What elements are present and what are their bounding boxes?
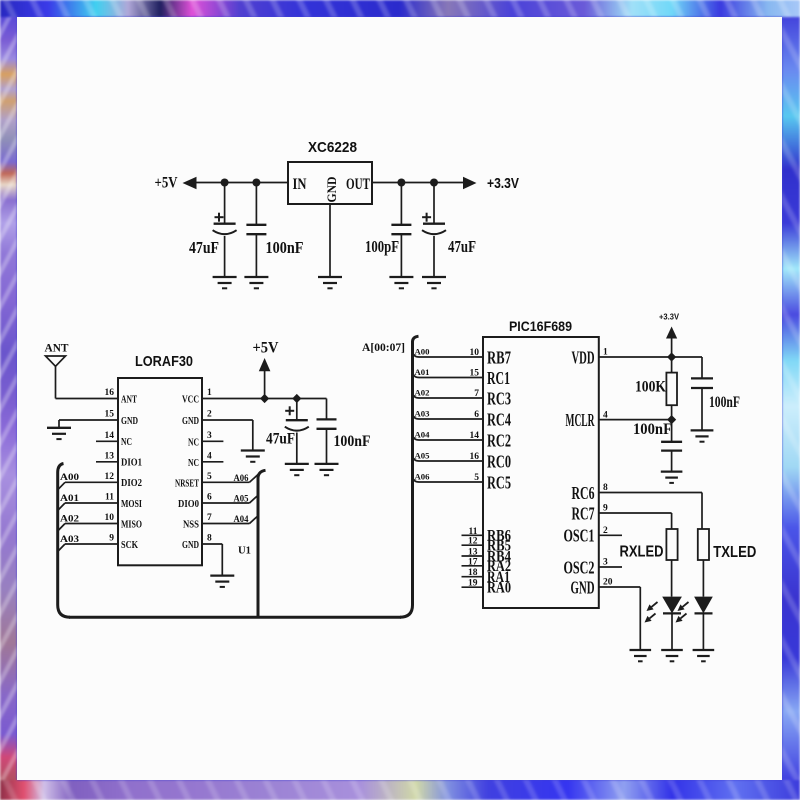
wire U1 pin13 DIO1 stub bbox=[96, 461, 118, 463]
label net A06 bbox=[415, 472, 430, 482]
svg-text:A05: A05 bbox=[234, 495, 249, 505]
label net A01 bbox=[60, 494, 79, 504]
svg-text:A06: A06 bbox=[415, 472, 430, 482]
label net A04 bbox=[415, 430, 431, 440]
svg-text:MCLR: MCLR bbox=[566, 410, 596, 430]
wire net A02 to U2 pin7 bbox=[413, 393, 484, 399]
wire regulator GND pin bbox=[329, 204, 331, 277]
LED D2 TX bbox=[676, 597, 713, 650]
U2 pin number 9 bbox=[603, 504, 608, 514]
ground D2 bbox=[693, 650, 715, 661]
wire U2 RC6 to TXLED bbox=[599, 493, 702, 530]
wire net A06 to U1 pin5 bbox=[202, 475, 258, 483]
svg-text:+5V: +5V bbox=[253, 340, 279, 357]
svg-text:A06: A06 bbox=[234, 474, 249, 484]
U1 pin numbers left 16..9 bbox=[105, 388, 115, 544]
svg-text:PIC16F689: PIC16F689 bbox=[509, 318, 572, 334]
svg-text:DIO2: DIO2 bbox=[121, 478, 142, 489]
svg-text:13: 13 bbox=[105, 451, 115, 461]
svg-text:NC: NC bbox=[188, 458, 199, 469]
svg-text:18: 18 bbox=[468, 568, 478, 578]
label 47uF (C4) bbox=[448, 237, 476, 256]
svg-text:VCC: VCC bbox=[182, 395, 199, 406]
svg-text:SCK: SCK bbox=[121, 540, 138, 551]
label net A00 bbox=[60, 473, 79, 483]
wire U2 pin11 stub bbox=[462, 534, 484, 536]
U2 pin number 13 bbox=[468, 548, 478, 558]
svg-text:+3.3V: +3.3V bbox=[659, 312, 679, 322]
svg-text:+3.3V: +3.3V bbox=[487, 175, 519, 192]
wire U1 pin2 GND bbox=[202, 420, 253, 451]
+5V power arrow (left) bbox=[155, 175, 197, 192]
svg-text:12: 12 bbox=[468, 537, 478, 547]
svg-text:RC5: RC5 bbox=[487, 472, 511, 492]
U2 pin number 2 bbox=[603, 526, 608, 536]
wire antenna to U1 pin16 bbox=[56, 398, 119, 400]
U2 pin number 18 bbox=[468, 568, 478, 578]
wire net A00 to U2 pin10 bbox=[413, 352, 484, 358]
svg-text:14: 14 bbox=[470, 431, 480, 441]
svg-text:RC2: RC2 bbox=[487, 430, 511, 450]
wire U1 pin3 NC stub bbox=[202, 440, 223, 442]
wire U1 pin1 VCC rail bbox=[202, 398, 327, 400]
svg-text:RB7: RB7 bbox=[487, 347, 511, 367]
svg-text:100pF: 100pF bbox=[365, 237, 399, 256]
ground regulator bbox=[318, 277, 342, 288]
wire net A01 to U1 pin11 bbox=[58, 503, 118, 511]
wire U1 pin4 NC stub bbox=[202, 461, 223, 463]
U2 pin number 11 bbox=[469, 527, 478, 537]
svg-text:100nF: 100nF bbox=[709, 394, 740, 411]
svg-text:100nF: 100nF bbox=[334, 433, 371, 450]
node junction C2 bbox=[252, 179, 260, 187]
bus A[00:07] right riser bbox=[400, 336, 419, 617]
svg-text:A01: A01 bbox=[415, 367, 430, 377]
wire U2 RC7 to RXLED bbox=[599, 513, 672, 529]
microcontroller U2 PIC16F689 bbox=[483, 337, 599, 608]
label 100K bbox=[635, 379, 666, 396]
ground C7 bbox=[661, 472, 683, 483]
svg-text:16: 16 bbox=[105, 388, 115, 398]
wire U2 OSC2 stub bbox=[599, 566, 622, 568]
node junction C1 bbox=[221, 179, 229, 187]
capacitor C8 100nF (VDD) bbox=[691, 357, 713, 430]
svg-text:RC4: RC4 bbox=[487, 409, 511, 429]
wire U2 pin18 stub bbox=[462, 576, 484, 578]
wire regulator OUT to +3.3V bbox=[372, 182, 465, 184]
label LORAF30 bbox=[135, 353, 193, 370]
svg-text:A02: A02 bbox=[415, 388, 430, 398]
label net A06 bbox=[234, 474, 249, 484]
node junction C3 bbox=[397, 179, 405, 187]
wire U2 GND pin20 bbox=[599, 587, 641, 650]
U2 pin number 3 bbox=[603, 558, 608, 568]
svg-text:A05: A05 bbox=[415, 451, 430, 461]
bus A[00:07] middle riser bbox=[258, 470, 266, 617]
wire U2 pin13 stub bbox=[462, 555, 484, 557]
wire U2 MCLR bbox=[599, 419, 672, 421]
ground C1 bbox=[213, 277, 237, 288]
U2 pin number 14 bbox=[470, 431, 480, 441]
svg-text:16: 16 bbox=[470, 452, 480, 462]
svg-text:19: 19 bbox=[468, 579, 478, 589]
resistor R2 RXLED bbox=[666, 529, 677, 597]
svg-text:A04: A04 bbox=[415, 430, 431, 440]
label U1 bbox=[238, 546, 251, 557]
svg-text:NC: NC bbox=[188, 437, 199, 448]
svg-text:5: 5 bbox=[474, 473, 479, 483]
svg-text:RC7: RC7 bbox=[572, 503, 595, 523]
label bus A[00:07] bbox=[362, 340, 405, 354]
svg-text:A[00:07]: A[00:07] bbox=[362, 340, 405, 354]
wire net A02 to U1 pin10 bbox=[58, 524, 118, 532]
U2 pin number 5 bbox=[474, 473, 479, 483]
svg-text:OSC2: OSC2 bbox=[564, 557, 595, 577]
svg-text:9: 9 bbox=[109, 534, 114, 544]
svg-text:15: 15 bbox=[470, 369, 480, 379]
svg-text:5: 5 bbox=[207, 472, 212, 482]
capacitor C5 47uF bbox=[285, 399, 309, 464]
svg-text:RXLED: RXLED bbox=[620, 544, 664, 561]
capacitor C3 100pF bbox=[391, 183, 411, 278]
wire U1 pin8 GND bbox=[202, 544, 222, 576]
+3.3V power arrow (right) bbox=[463, 175, 519, 192]
node junction C5 bbox=[292, 394, 301, 403]
wire net A04 to U1 pin7 bbox=[202, 516, 258, 524]
antenna ANT bbox=[45, 341, 69, 399]
svg-text:MISO: MISO bbox=[121, 519, 142, 530]
label 100pF (C3) bbox=[365, 237, 399, 256]
svg-text:15: 15 bbox=[105, 410, 115, 420]
svg-text:ANT: ANT bbox=[45, 341, 69, 355]
label net A00 bbox=[415, 347, 430, 357]
label 47uF (C1) bbox=[189, 238, 219, 257]
wire U2 pin17 stub bbox=[462, 565, 484, 567]
U2 pin number 12 bbox=[468, 537, 478, 547]
voltage regulator U3 XC6228 bbox=[288, 162, 372, 204]
svg-text:GND: GND bbox=[121, 416, 138, 427]
bus A[00:07] bottom run bbox=[69, 616, 401, 619]
U2 pin number 16 bbox=[470, 452, 480, 462]
svg-text:NRSET: NRSET bbox=[175, 478, 199, 489]
svg-text:1: 1 bbox=[207, 388, 212, 398]
label net A03 bbox=[60, 535, 79, 545]
label 100nF (C8) bbox=[709, 394, 740, 411]
label net A05 bbox=[234, 495, 249, 505]
ground C3 bbox=[389, 277, 413, 288]
svg-text:OSC1: OSC1 bbox=[564, 526, 595, 546]
svg-text:RC3: RC3 bbox=[487, 388, 511, 408]
resistor R3 TXLED bbox=[698, 529, 709, 597]
node junction VDD/R1 bbox=[667, 352, 676, 361]
svg-text:47uF: 47uF bbox=[448, 237, 476, 256]
svg-text:+5V: +5V bbox=[155, 175, 178, 192]
U2 pin number 15 bbox=[470, 369, 480, 379]
svg-text:NSS: NSS bbox=[183, 520, 199, 531]
svg-text:A00: A00 bbox=[60, 473, 79, 483]
RF module U1 LORAF30 bbox=[118, 378, 202, 565]
svg-text:XC6228: XC6228 bbox=[308, 139, 357, 156]
wire U2 OSC1 stub bbox=[599, 534, 622, 536]
svg-text:100nF: 100nF bbox=[266, 238, 304, 257]
capacitor C1 47uF bbox=[213, 183, 237, 278]
resistor R1 100K bbox=[666, 357, 677, 420]
svg-text:DIO0: DIO0 bbox=[178, 499, 199, 510]
label net A01 bbox=[415, 367, 430, 377]
label PIC16F689 bbox=[509, 318, 572, 334]
wire net A00 to U1 pin12 bbox=[58, 482, 118, 490]
svg-text:RA0: RA0 bbox=[487, 580, 511, 597]
svg-text:ANT: ANT bbox=[121, 394, 137, 405]
U2 pin number 1 bbox=[603, 348, 608, 358]
label RXLED bbox=[620, 544, 664, 561]
svg-text:12: 12 bbox=[105, 472, 115, 482]
svg-text:GND: GND bbox=[571, 577, 595, 597]
label net A05 bbox=[415, 451, 430, 461]
wire net A03 to U1 pin9 bbox=[58, 544, 118, 552]
wire +5V rail to regulator IN bbox=[196, 182, 288, 184]
svg-text:13: 13 bbox=[468, 548, 478, 558]
svg-text:A01: A01 bbox=[60, 494, 79, 504]
svg-text:7: 7 bbox=[207, 513, 212, 523]
svg-text:GND: GND bbox=[182, 416, 199, 427]
svg-text:14: 14 bbox=[105, 431, 115, 441]
svg-text:A03: A03 bbox=[60, 535, 79, 545]
svg-text:3: 3 bbox=[207, 431, 212, 441]
ground U1 pin15 bbox=[47, 428, 71, 439]
ground C6 bbox=[315, 464, 339, 475]
label net A04 bbox=[234, 515, 249, 525]
svg-text:2: 2 bbox=[207, 410, 212, 420]
U2 pin number 10 bbox=[470, 348, 480, 358]
svg-text:A00: A00 bbox=[415, 347, 430, 357]
svg-text:11: 11 bbox=[105, 493, 114, 503]
ground C5 bbox=[285, 464, 309, 475]
svg-text:A03: A03 bbox=[415, 409, 430, 419]
label TXLED bbox=[713, 544, 756, 561]
wire net A01 to U2 pin15 bbox=[413, 372, 484, 378]
wire net A04 to U2 pin14 bbox=[413, 435, 484, 441]
label net A02 bbox=[60, 514, 79, 524]
node junction VCC/+5V bbox=[260, 394, 269, 403]
svg-text:DIO1: DIO1 bbox=[121, 458, 142, 469]
svg-text:VDD: VDD bbox=[572, 347, 595, 367]
U2 pin number 7 bbox=[474, 389, 479, 399]
wire U1 pin14 NC stub bbox=[96, 440, 118, 442]
svg-text:LORAF30: LORAF30 bbox=[135, 353, 193, 370]
svg-text:GND: GND bbox=[324, 177, 339, 203]
wire net A05 to U1 pin6 bbox=[202, 495, 258, 503]
wire net A06 to U2 pin5 bbox=[413, 477, 484, 483]
ground C4 bbox=[422, 277, 446, 288]
svg-text:RC0: RC0 bbox=[487, 451, 511, 471]
node junction MCLR bbox=[667, 415, 676, 424]
svg-text:NC: NC bbox=[121, 437, 132, 448]
label 100nF (C6) bbox=[334, 433, 371, 450]
svg-text:47uF: 47uF bbox=[266, 431, 295, 448]
capacitor C4 47uF bbox=[422, 183, 446, 278]
+3.3V power arrow at VDD bbox=[659, 312, 679, 358]
svg-text:RC6: RC6 bbox=[572, 483, 595, 503]
ground U1 pin2 bbox=[241, 451, 265, 462]
label XC6228 bbox=[308, 139, 357, 156]
svg-text:RC1: RC1 bbox=[487, 368, 510, 388]
wire U2 pin19 stub bbox=[462, 586, 484, 588]
svg-text:OUT: OUT bbox=[346, 176, 370, 193]
ground U1 pin8 bbox=[210, 576, 234, 587]
U2 pin number 17 bbox=[468, 557, 478, 567]
svg-text:10: 10 bbox=[470, 348, 480, 358]
svg-text:7: 7 bbox=[474, 389, 479, 399]
label net A03 bbox=[415, 409, 430, 419]
svg-text:100nF: 100nF bbox=[633, 421, 672, 438]
svg-text:GND: GND bbox=[182, 540, 199, 551]
label 100nF (C2) bbox=[266, 238, 304, 257]
label 47uF (C5) bbox=[266, 431, 295, 448]
wire U2 VDD rail bbox=[599, 356, 702, 358]
U2 pin number 4 bbox=[603, 410, 608, 420]
svg-text:10: 10 bbox=[105, 513, 115, 523]
svg-text:4: 4 bbox=[207, 451, 212, 461]
capacitor C7 100nF (MCLR) bbox=[661, 420, 682, 472]
LED D1 RX bbox=[645, 597, 682, 650]
svg-text:8: 8 bbox=[207, 534, 212, 544]
svg-text:100K: 100K bbox=[635, 379, 666, 396]
+5V power arrow at U1 VCC bbox=[253, 340, 279, 399]
ground C8 bbox=[691, 430, 714, 441]
wire net A03 to U2 pin6 bbox=[413, 414, 484, 420]
svg-text:11: 11 bbox=[469, 527, 478, 537]
svg-text:U1: U1 bbox=[238, 546, 251, 557]
wire U2 pin12 stub bbox=[462, 544, 484, 546]
U2 pin number 19 bbox=[468, 579, 478, 589]
capacitor C6 100nF bbox=[317, 399, 337, 464]
U2 pin number 20 bbox=[603, 578, 613, 588]
label net A02 bbox=[415, 388, 430, 398]
node junction C4 bbox=[430, 179, 438, 187]
ground U2 pin20 bbox=[630, 650, 652, 661]
wire U1 pin15 GND bbox=[59, 420, 118, 428]
ground C2 bbox=[244, 277, 268, 288]
svg-text:47uF: 47uF bbox=[189, 238, 219, 257]
svg-text:A04: A04 bbox=[234, 515, 249, 525]
svg-text:A02: A02 bbox=[60, 514, 79, 524]
svg-text:6: 6 bbox=[474, 410, 479, 420]
label 100nF (C7) bbox=[633, 421, 672, 438]
wire net A05 to U2 pin16 bbox=[413, 456, 484, 462]
ground D1 bbox=[661, 650, 683, 661]
svg-text:17: 17 bbox=[468, 557, 478, 567]
svg-text:6: 6 bbox=[207, 493, 212, 503]
svg-text:IN: IN bbox=[293, 176, 307, 193]
U1 pin numbers right 1..8 bbox=[207, 388, 212, 544]
U2 pin number 6 bbox=[474, 410, 479, 420]
capacitor C2 100nF bbox=[246, 183, 266, 278]
bus A[00:07] left riser bbox=[58, 464, 70, 618]
svg-text:TXLED: TXLED bbox=[713, 544, 756, 561]
svg-text:MOSI: MOSI bbox=[121, 499, 142, 510]
U2 pin number 8 bbox=[603, 483, 608, 493]
